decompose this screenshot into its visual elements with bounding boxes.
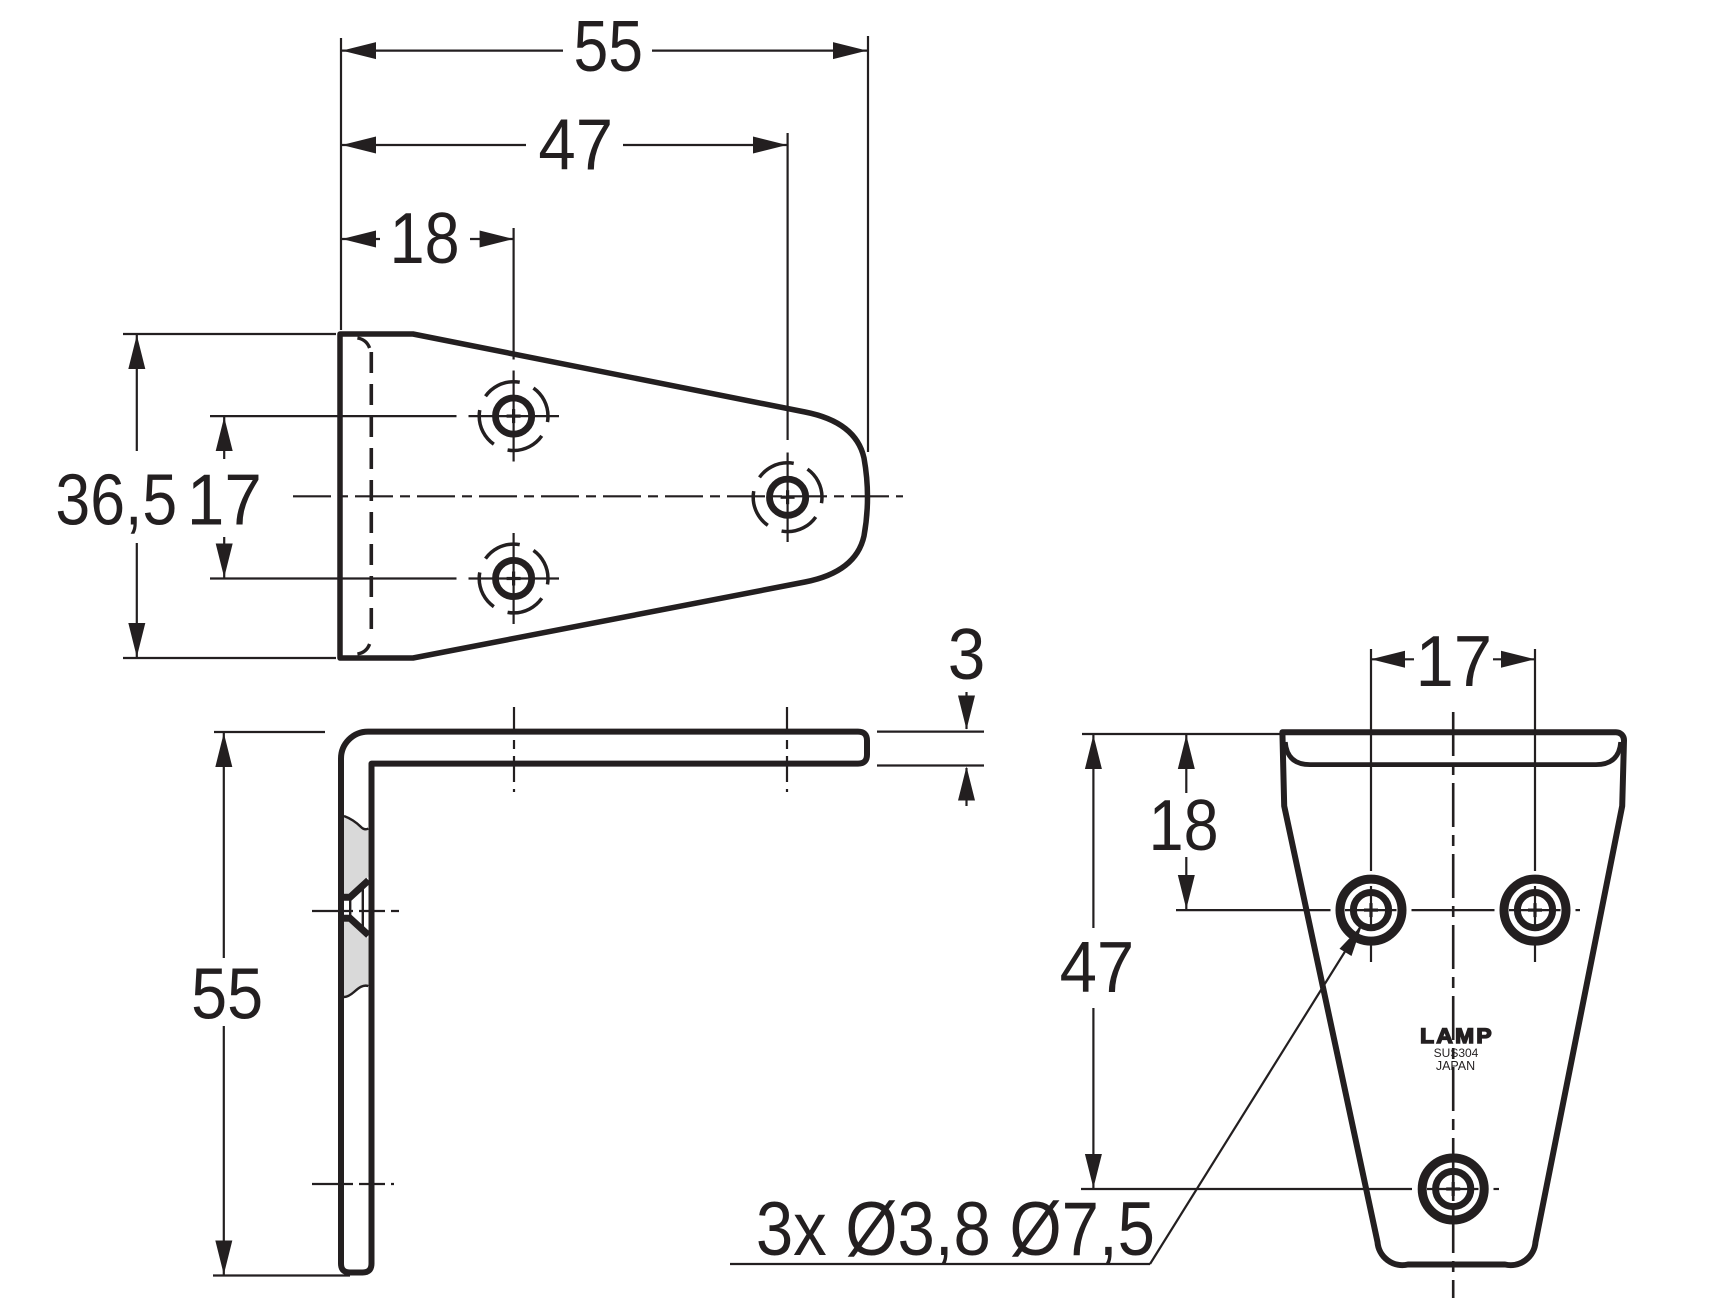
svg-text:LAMP: LAMP [1420,1023,1494,1047]
svg-text:47: 47 [1060,927,1135,1008]
svg-text:17: 17 [187,459,262,540]
svg-text:47: 47 [538,104,613,185]
svg-text:55: 55 [191,953,263,1034]
svg-text:3x Ø3,8 Ø7,5: 3x Ø3,8 Ø7,5 [756,1187,1155,1272]
svg-text:SUS304: SUS304 [1434,1046,1479,1060]
svg-text:18: 18 [1149,786,1219,866]
svg-text:JAPAN: JAPAN [1436,1059,1475,1073]
svg-text:17: 17 [1415,621,1492,702]
svg-text:36,5: 36,5 [55,460,177,540]
svg-text:55: 55 [574,7,644,87]
svg-text:3: 3 [948,614,986,694]
svg-text:18: 18 [390,199,460,279]
